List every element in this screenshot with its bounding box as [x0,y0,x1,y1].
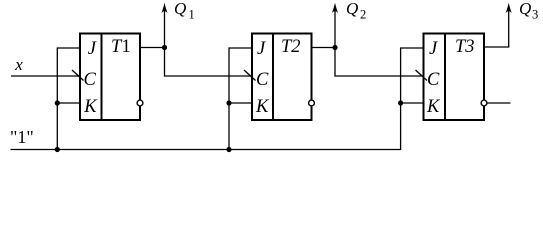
svg-text:Q: Q [346,0,358,18]
svg-text:Q: Q [174,0,186,18]
svg-text:C: C [427,70,440,90]
svg-text:K: K [83,97,98,117]
svg-text:C: C [256,70,269,90]
svg-text:Q: Q [519,0,531,18]
svg-text:T2: T2 [281,37,301,57]
svg-text:K: K [255,97,270,117]
svg-text:T3: T3 [455,37,475,57]
svg-text:J: J [429,39,438,59]
svg-text:x: x [14,55,23,74]
svg-text:C: C [84,70,97,90]
svg-text:1: 1 [189,8,195,22]
svg-text:J: J [257,39,266,59]
svg-text:3: 3 [532,8,538,22]
svg-text:1: 1 [122,37,131,57]
svg-text:2: 2 [360,8,366,22]
svg-text:"1": "1" [10,127,34,147]
svg-text:J: J [88,39,97,59]
svg-text:K: K [426,97,441,117]
